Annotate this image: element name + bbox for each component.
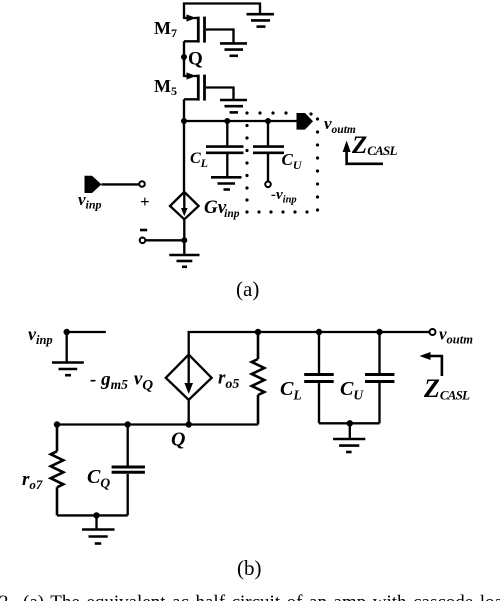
wire: node Q line (part b) <box>57 423 258 425</box>
label v_inp (part b) <box>28 324 53 347</box>
wire: output rail <box>184 120 297 122</box>
junction dot at CU <box>265 118 271 124</box>
junction dot rail at r_o5 <box>255 329 261 335</box>
label (a) <box>236 277 259 301</box>
label (b) <box>237 556 262 580</box>
wire: C_L C_U bottom connector <box>319 422 380 424</box>
wire: bottom return with terminal circle <box>140 238 185 244</box>
terminal circle v_outm (part b) <box>430 329 436 335</box>
svg-text:(a) The equivalent ac half cir: (a) The equivalent ac half circuit of an… <box>23 592 500 601</box>
capacitor C_L (part b) <box>304 332 334 423</box>
svg-text:+: + <box>140 192 150 211</box>
label M5 <box>154 76 177 98</box>
transistor M5 <box>184 72 205 100</box>
caption text <box>0 592 500 601</box>
ground at M5 gate <box>220 100 247 112</box>
svg-text:Q: Q <box>171 429 185 451</box>
wire: M5 gate to ground <box>206 88 234 100</box>
label r_o7 <box>22 469 43 492</box>
junction dot bottom (part a) <box>181 237 187 243</box>
label v_inp (part a) <box>78 190 102 212</box>
label -g_m5 v_Q <box>90 369 153 394</box>
wire: bottom connector r_o7 C_Q <box>57 514 128 516</box>
wire: top rail (part b) <box>189 332 430 355</box>
label C_U (part b) <box>340 378 364 403</box>
ground under C_L (part a) <box>211 177 242 189</box>
ground top-right <box>247 14 275 26</box>
ground at M7 gate <box>220 43 247 55</box>
label C_U (part a) <box>282 150 303 172</box>
label C_Q <box>87 466 110 491</box>
wire: M5 drain down to output rail <box>183 99 185 121</box>
svg-text:(a): (a) <box>236 277 259 301</box>
dotted box around cascode load <box>245 111 319 213</box>
resistor r_o7 <box>51 425 64 516</box>
label Gv_inp <box>204 197 240 220</box>
svg-text:2.: 2. <box>0 592 13 601</box>
output port arrow v_outm <box>297 113 314 130</box>
junction dot node Q at diamond <box>186 421 192 427</box>
label C_L (part a) <box>190 150 208 170</box>
dependent source G v_inp (diamond, part a) <box>170 192 199 219</box>
input port arrow v_inp (part a) <box>85 176 145 193</box>
ground under C_L C_U (part b) <box>333 423 365 452</box>
svg-text:(b): (b) <box>237 556 262 580</box>
svg-text:Q: Q <box>188 49 203 70</box>
junction dot bottom (part b) <box>93 512 99 518</box>
label v_outm (part b) <box>439 325 473 347</box>
wire: node Q down to M5 source <box>183 57 185 77</box>
wire: diamond bottom to node Q line <box>188 400 190 425</box>
label + <box>140 192 150 211</box>
label Q (part b) <box>171 429 185 451</box>
junction dot v_inp (part b) <box>63 329 69 335</box>
ground at v_inp (part b) <box>52 332 84 375</box>
ground bottom-left (part b) <box>82 515 115 543</box>
ground bottom (part a) <box>169 240 199 266</box>
label Q (node, part a) <box>188 49 203 70</box>
junction dot at CL <box>224 118 230 124</box>
label M7 <box>154 18 177 40</box>
junction dot rail at C_L (part b) <box>316 329 322 335</box>
label C_L (part b) <box>280 378 302 403</box>
label - (minus) <box>140 229 147 232</box>
wire: M7 gate to ground <box>206 30 234 43</box>
junction dot output rail left <box>181 118 187 124</box>
junction dot node Q left <box>54 421 60 427</box>
capacitor C_U (part a) <box>253 121 284 187</box>
label v_outm <box>324 114 356 136</box>
capacitor C_L (part a) <box>206 121 244 176</box>
junction dot node Q at C_Q <box>125 421 131 427</box>
label -v_inp <box>271 187 297 206</box>
junction dot rail at C_U (part b) <box>376 329 382 335</box>
label r_o5 <box>218 368 239 393</box>
wire: output rail down to dependent source <box>183 121 185 192</box>
wire: M7 drain down to node Q <box>183 41 185 57</box>
transistor M7 <box>184 14 205 42</box>
label Z_CASL (part b) <box>423 374 470 403</box>
capacitor C_Q <box>112 425 145 516</box>
impedance arrow Z_CASL (part b) <box>420 352 442 376</box>
node Q junction dot <box>181 54 187 60</box>
junction dot ground connector <box>347 420 353 426</box>
dependent source -g_m5 v_Q (diamond, part b) <box>166 355 212 400</box>
capacitor C_U (part b) <box>365 332 394 423</box>
wire: M7 source up to top rail over to ground <box>184 4 260 20</box>
label Z_CASL (part a) <box>351 132 397 159</box>
resistor r_o5 <box>252 332 265 425</box>
wire: v_inp stub (part b) <box>67 331 106 333</box>
wire: diamond to bottom junction <box>183 219 185 240</box>
impedance arrow Z_CASL (part a) <box>343 141 383 164</box>
